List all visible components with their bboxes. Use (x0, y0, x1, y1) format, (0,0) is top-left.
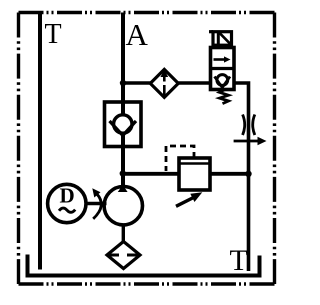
valve V1 body (2/2 poppet valve, two stacked squares) (211, 48, 235, 90)
node: junction A-line / breather branch (120, 80, 126, 86)
check valve C1 (boxed, ball on seat) (105, 102, 142, 147)
valve V1 lower position: poppet (ball on seat) (217, 75, 228, 86)
spring of valve V1 (220, 90, 229, 104)
wire: tee to relief valve inlet (123, 172, 179, 176)
svg-text:T: T (230, 244, 248, 277)
wire: A supply line (top border down to check valve) (121, 13, 125, 116)
svg-text:D: D (60, 184, 75, 208)
wire: branch to breather filter (123, 81, 151, 85)
wire: check valve to pump tee (121, 136, 125, 186)
enclosure border (dash-dot-dot phantom frame) (19, 11, 275, 14)
air breather F2 (diamond with upward arrow) (150, 69, 178, 97)
wire: valve outlet, right then down to tank (234, 83, 249, 271)
wire: breather to solenoid valve (178, 81, 210, 85)
solenoid of valve V1 (box with diagonal) (213, 32, 232, 46)
svg-text:T: T (45, 19, 62, 50)
valve V1 upper position: through-flow arrow (214, 58, 227, 61)
wire: relief valve outlet to tank line (210, 172, 249, 176)
relief valve RV1 body (179, 158, 210, 190)
pump P1 (circle, outlet triangle up) (104, 187, 142, 225)
suction filter F1 (diamond with dashed cross line) (107, 242, 140, 269)
electric motor M1 (circle with D~) (48, 184, 86, 222)
flow direction arrow through throttle line (234, 140, 259, 143)
throttle (restrictor) on down line (243, 115, 245, 136)
svg-text:A: A (126, 17, 149, 52)
wire: T return line (left, from top border down into tank) (38, 13, 42, 270)
node: junction relief outlet / tank down-line (245, 171, 251, 177)
pilot line (dashed) of relief valve (166, 146, 194, 171)
shaft: motor to pump (86, 202, 107, 205)
tank (open reservoir across bottom) (28, 255, 260, 276)
rotation direction arrow on shaft (93, 194, 101, 219)
relief valve adjustment arrow (176, 198, 194, 207)
node: pump outlet tee (120, 170, 126, 176)
wire: pump suction down to filter (122, 225, 125, 242)
